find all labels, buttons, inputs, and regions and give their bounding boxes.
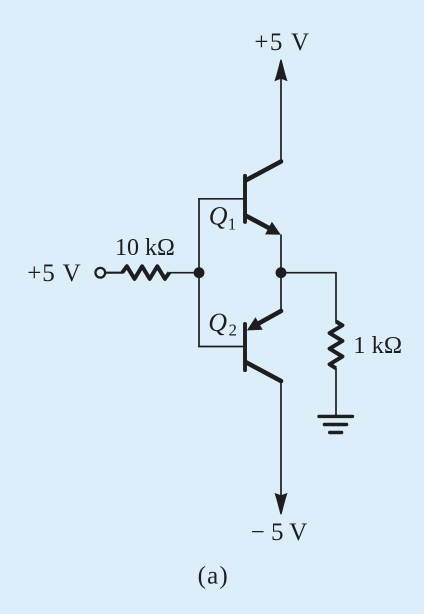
transistor Q1 emitter arrowhead — [265, 222, 281, 235]
svg-text:(a): (a) — [198, 563, 229, 590]
wire: base bus vertical — [198, 198, 200, 347]
svg-text:− 5 V: − 5 V — [251, 519, 308, 546]
svg-text:+5 V: +5 V — [27, 260, 81, 287]
ground symbol — [319, 415, 353, 418]
wire: Q2 collector to -5V supply — [280, 381, 282, 497]
wire: terminal to resistor R1 — [105, 272, 123, 274]
resistor R1 10 kOhm zigzag — [122, 266, 169, 279]
resistor RL 1 kOhm zigzag — [330, 322, 343, 369]
svg-text:1 kΩ: 1 kΩ — [353, 332, 402, 359]
wire: output node to load resistor — [281, 272, 337, 274]
wire: Q1 base — [198, 198, 243, 200]
transistor Q2 base bar — [243, 324, 247, 370]
transistor Q2 emitter diagonal — [256, 311, 281, 325]
svg-text:2: 2 — [229, 321, 237, 340]
wire: resistor RL to ground — [335, 368, 337, 415]
transistor Q2 emitter arrowhead — [247, 317, 263, 330]
svg-text:Q: Q — [209, 201, 228, 230]
wire: Q2 base — [198, 346, 243, 348]
node: input bases junction — [194, 267, 205, 278]
transistor Q2 collector diagonal — [246, 362, 282, 381]
transistor Q1 emitter diagonal — [246, 216, 271, 229]
node: output junction — [276, 267, 287, 278]
+5 V supply arrow — [274, 60, 287, 82]
wire: load resistor drop — [335, 272, 337, 322]
wire: +5V supply to Q1 collector — [280, 78, 282, 162]
transistor Q1 base bar — [243, 176, 247, 222]
input terminal circle — [95, 268, 105, 278]
svg-text:1: 1 — [228, 214, 236, 233]
wire: resistor R1 to input node — [169, 272, 199, 274]
-5 V supply arrow (down) — [274, 493, 287, 515]
wire: output vertical (Q1 emitter to Q2 emitter) — [280, 235, 282, 312]
svg-text:10 kΩ: 10 kΩ — [115, 235, 175, 261]
svg-text:Q: Q — [208, 308, 227, 337]
transistor Q1 collector diagonal — [246, 162, 282, 181]
svg-text:+5 V: +5 V — [254, 29, 310, 56]
